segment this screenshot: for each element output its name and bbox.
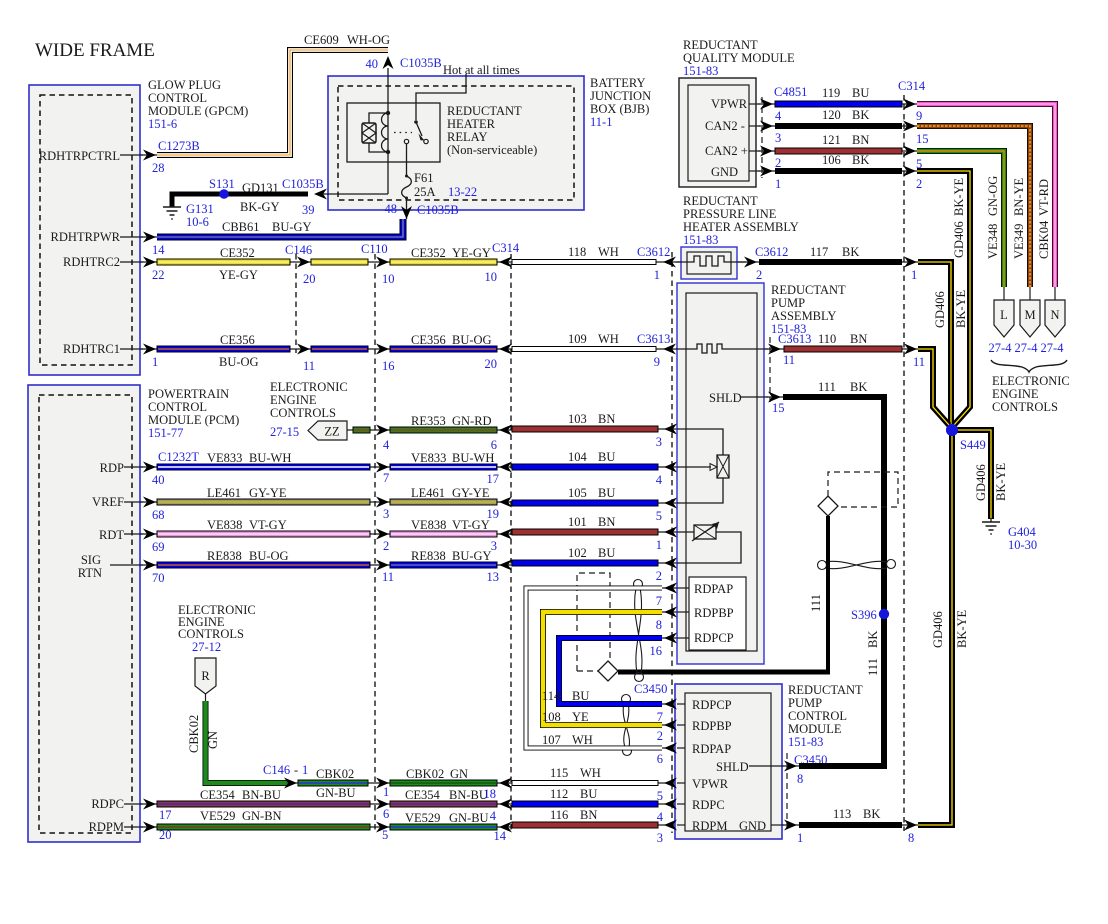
wire CBB61 BU-GY from fuse to GPCM pin 14 <box>157 219 403 237</box>
RPCM pin RDPAP <box>657 742 731 766</box>
svg-text:101: 101 <box>568 515 587 529</box>
label G131 10-6 <box>186 202 214 229</box>
pump internal solenoid valve <box>677 455 729 478</box>
svg-text:27-4: 27-4 <box>1041 341 1065 355</box>
svg-text:108: 108 <box>542 710 561 724</box>
svg-text:2: 2 <box>775 156 781 170</box>
labels BN-YE VE349 <box>1012 177 1026 259</box>
svg-text:C314: C314 <box>492 241 520 255</box>
svg-text:CONTROL: CONTROL <box>788 709 847 723</box>
RPCM pin RDPCP <box>657 698 732 724</box>
svg-text:C1035B: C1035B <box>282 177 324 191</box>
pump sensor box RDPAP RDPBP RDPCP <box>689 577 746 650</box>
labels GD406 BK-YE below S449 <box>931 609 969 648</box>
svg-text:111: 111 <box>866 658 880 676</box>
svg-text:9: 9 <box>654 355 660 369</box>
arrow C146 row CE356 <box>297 344 310 355</box>
svg-text:RDPCP: RDPCP <box>692 698 732 712</box>
svg-text:RDPM: RDPM <box>89 820 124 834</box>
svg-text:4: 4 <box>775 109 782 123</box>
relay dotted link <box>394 132 412 134</box>
wire 101 BN C314 to pump <box>512 515 658 535</box>
svg-text:RDHTRC1: RDHTRC1 <box>63 342 120 356</box>
svg-text:BU-OG: BU-OG <box>452 333 492 347</box>
svg-text:120: 120 <box>822 108 841 122</box>
connector C314 dashed column <box>492 241 520 833</box>
wire junction hairlines <box>124 104 919 827</box>
svg-text:BN-BU: BN-BU <box>242 788 281 802</box>
arrow C314 pin 9 <box>903 99 922 124</box>
svg-text:69: 69 <box>152 540 165 554</box>
pump internal motor symbol <box>677 522 741 563</box>
relay resistor branch wires <box>369 113 388 152</box>
svg-text:RTN: RTN <box>78 566 102 580</box>
PCM pin RDPM <box>89 820 172 842</box>
labels CBK02 GN vertical <box>187 715 220 753</box>
arrow C110 row RE838 <box>376 560 389 571</box>
svg-text:BU: BU <box>580 787 597 801</box>
wire CBK02 GN-BU C146 to C110 <box>298 767 368 800</box>
wire 117 BK C3612 to right column <box>759 245 902 265</box>
svg-text:C3612: C3612 <box>755 245 788 259</box>
svg-text:GND: GND <box>711 165 738 179</box>
PCM label <box>148 387 239 440</box>
svg-text:BU: BU <box>852 86 869 100</box>
svg-text:RDHTRC2: RDHTRC2 <box>63 255 120 269</box>
svg-text:13: 13 <box>487 570 500 584</box>
svg-text:10-6: 10-6 <box>186 215 209 229</box>
svg-text:WH-OG: WH-OG <box>347 33 390 47</box>
pump pin RDPBP <box>656 607 689 633</box>
svg-text:MODULE: MODULE <box>788 722 842 736</box>
svg-text:114: 114 <box>542 689 561 703</box>
arrow C3613 pin 11 right <box>757 332 811 367</box>
svg-text:CE356: CE356 <box>411 333 446 347</box>
svg-text:14: 14 <box>494 829 507 843</box>
twisted pair symbol module sensor wires <box>622 695 632 756</box>
svg-text:ENGINE: ENGINE <box>270 393 317 407</box>
wire GD406 BK-YE from GND to S449 <box>917 171 970 425</box>
svg-text:151-83: 151-83 <box>788 735 823 749</box>
svg-text:RE838: RE838 <box>207 549 242 563</box>
splice S131 <box>219 189 229 199</box>
svg-text:REDUCTANT: REDUCTANT <box>683 38 758 52</box>
svg-text:48: 48 <box>385 202 398 216</box>
svg-text:40: 40 <box>152 473 165 487</box>
PCM pin RDP <box>100 450 200 487</box>
svg-text:(Non-serviceable): (Non-serviceable) <box>447 143 537 157</box>
svg-text:G404: G404 <box>1008 525 1037 539</box>
svg-text:VT-GY: VT-GY <box>249 518 287 532</box>
wire 113 BK GND to right column <box>799 807 902 828</box>
svg-text:15: 15 <box>916 132 929 146</box>
svg-text:27-15: 27-15 <box>270 425 299 439</box>
wire VE348 GN-OG to flag L <box>917 151 1004 287</box>
label BATTERY JUNCTION BOX (BJB) <box>590 76 651 129</box>
wire LE461 GY-YE PCM to C110 <box>157 486 370 505</box>
svg-text:CONTROLS: CONTROLS <box>270 406 336 420</box>
wire VE529 GN-BN PCM to C110 <box>157 809 370 830</box>
svg-text:SHLD: SHLD <box>716 760 749 774</box>
svg-text:3: 3 <box>491 539 497 553</box>
wire VE838 VT-GY C110 to C314 <box>390 518 497 537</box>
arrow C146 row CBK02 <box>284 778 297 789</box>
splice S396 <box>851 608 889 622</box>
svg-text:RDP: RDP <box>100 461 124 475</box>
svg-text:118: 118 <box>568 245 586 259</box>
svg-text:S449: S449 <box>960 438 986 452</box>
svg-text:6: 6 <box>491 438 497 452</box>
svg-text:116: 116 <box>550 808 568 822</box>
svg-text:2: 2 <box>656 569 662 583</box>
wire GD406 BK-YE from 117 down to S449 <box>918 262 951 426</box>
svg-text:CAN2 +: CAN2 + <box>705 144 748 158</box>
svg-text:17: 17 <box>159 808 172 822</box>
connector C146 pin 1 label <box>263 763 308 777</box>
wire VE838 VT-GY PCM to C110 <box>157 518 370 537</box>
svg-text:C3613: C3613 <box>778 332 811 346</box>
pump pin RDPAP <box>656 583 689 609</box>
labels S131 GD131 C1035B BK-GY 39 <box>209 177 324 217</box>
wire 112 BU C314 to RDPC <box>512 787 658 807</box>
svg-text:113: 113 <box>833 807 851 821</box>
wire GD406 BK-YE S449 down to pin 8 <box>918 428 952 825</box>
svg-text:7: 7 <box>383 471 389 485</box>
svg-text:106: 106 <box>822 153 841 167</box>
svg-text:RDHTRPWR: RDHTRPWR <box>51 230 121 244</box>
svg-text:PUMP: PUMP <box>771 296 805 310</box>
wire 107 WH pump RDPAP to module RDPAP <box>526 588 662 748</box>
connector C3613 dashed stub <box>769 337 771 402</box>
connector C146 dashed column <box>285 243 312 353</box>
svg-text:105: 105 <box>568 486 587 500</box>
svg-text:S396: S396 <box>851 608 877 622</box>
brace under flags <box>991 360 1067 372</box>
arrow C110 row VE529 <box>376 822 389 833</box>
wire 109 WH C314 to C3613 <box>512 332 656 352</box>
svg-text:BU: BU <box>598 450 615 464</box>
shield diamond left <box>598 661 618 681</box>
arrow C110 row LE461 <box>376 497 389 508</box>
wire VE529 GN-BU C110 to C314 <box>390 811 497 830</box>
svg-text:C1232T: C1232T <box>158 450 199 464</box>
svg-text:BATTERY: BATTERY <box>590 76 646 90</box>
svg-text:SIG: SIG <box>81 553 101 567</box>
relay resistor box with hatch <box>362 123 376 143</box>
svg-text:1: 1 <box>302 763 308 777</box>
svg-text:RELAY: RELAY <box>447 130 488 144</box>
svg-text:BN: BN <box>598 412 615 426</box>
svg-text:BK: BK <box>866 631 880 648</box>
svg-text:11-1: 11-1 <box>590 115 612 129</box>
svg-text:C4851: C4851 <box>774 85 807 99</box>
wire 121 BN <box>775 133 902 154</box>
svg-text:VE529: VE529 <box>200 809 235 823</box>
svg-text:BK: BK <box>863 807 880 821</box>
label ELECTRONIC ENGINE CONTROLS right <box>992 374 1070 414</box>
svg-text:RE353: RE353 <box>411 414 446 428</box>
wire 118 WH C314 to C3612 <box>512 245 656 265</box>
twisted pair symbol pump sensor wires <box>634 580 644 682</box>
svg-text:CBK02: CBK02 <box>316 767 354 781</box>
arrow C314 row CBK02 <box>499 778 512 789</box>
svg-text:HEATER: HEATER <box>447 117 496 131</box>
svg-text:C3613: C3613 <box>637 332 670 346</box>
svg-text:VREF: VREF <box>92 495 124 509</box>
svg-text:GY-YE: GY-YE <box>249 486 287 500</box>
wire 105 BU C314 to pump <box>512 486 658 506</box>
arrow C314 row LE461 <box>499 497 512 508</box>
svg-text:11: 11 <box>303 359 315 373</box>
shield diamond right <box>818 496 838 516</box>
RPCM GND output arrow <box>771 820 803 846</box>
svg-text:151-83: 151-83 <box>683 233 718 247</box>
svg-text:VE838: VE838 <box>411 518 446 532</box>
svg-text:3: 3 <box>657 831 663 845</box>
wire relay coil vertical from C1035B 40 <box>387 68 389 194</box>
arrow C314 pin 15 <box>903 121 929 147</box>
GPCM pin RDHTRC1 <box>63 342 158 369</box>
wire CE354 BN-BU C110 to C314 <box>390 788 497 807</box>
label relay <box>447 104 537 157</box>
svg-text:4: 4 <box>383 438 390 452</box>
svg-text:17: 17 <box>487 472 500 486</box>
svg-text:22: 22 <box>152 268 165 282</box>
svg-text:VE349: VE349 <box>1012 224 1026 259</box>
labels GN-OG VE348 <box>986 176 1000 259</box>
svg-text:YE-GY: YE-GY <box>452 246 491 260</box>
arrow C110 row CE354 <box>376 799 389 810</box>
arrow C3612 pin 2 <box>744 245 788 282</box>
svg-text:BK: BK <box>852 108 869 122</box>
svg-text:VE838: VE838 <box>207 518 242 532</box>
shield dashed path right <box>828 472 898 507</box>
svg-text:117: 117 <box>810 245 828 259</box>
svg-text:7: 7 <box>657 710 663 724</box>
GPCM label <box>148 78 248 131</box>
svg-text:GND: GND <box>739 819 766 833</box>
svg-text:CBK04: CBK04 <box>1037 220 1051 259</box>
flag L <box>989 287 1014 355</box>
arrow C314 pin 5 <box>903 146 922 172</box>
svg-text:BU-WH: BU-WH <box>249 451 291 465</box>
PCM pin RDPC <box>91 797 171 822</box>
svg-text:MODULE (PCM): MODULE (PCM) <box>148 413 239 427</box>
svg-text:BK-YE: BK-YE <box>954 289 968 328</box>
svg-text:BK-YE: BK-YE <box>952 177 966 216</box>
RQM pin GND <box>711 165 781 191</box>
arrow pump pin 3 <box>656 424 677 450</box>
svg-text:CBK02: CBK02 <box>406 767 444 781</box>
svg-text:39: 39 <box>302 203 315 217</box>
svg-text:CE352: CE352 <box>411 246 446 260</box>
arrow C3612 pin 1 <box>637 245 676 282</box>
svg-text:BU: BU <box>598 546 615 560</box>
svg-text:GLOW PLUG: GLOW PLUG <box>148 78 221 92</box>
svg-text:112: 112 <box>550 787 568 801</box>
wire 119 BU <box>775 79 926 107</box>
wire fuse to C1035B 48 <box>406 198 408 219</box>
arrow C110 row RE353 <box>376 425 389 436</box>
labels BK-YE GD406 wire2 <box>952 177 966 258</box>
svg-text:-: - <box>294 763 298 777</box>
svg-text:RDPC: RDPC <box>692 798 725 812</box>
svg-text:GN-RD: GN-RD <box>452 414 492 428</box>
svg-text:GN-BN: GN-BN <box>242 809 282 823</box>
svg-text:2: 2 <box>756 268 762 282</box>
svg-text:BK: BK <box>852 153 869 167</box>
svg-text:PUMP: PUMP <box>788 696 822 710</box>
wire 103 BN C314 to pump <box>512 412 658 432</box>
wire SHLD thick black to S396 line <box>799 760 884 766</box>
label REDUCTANT PUMP CONTROL MODULE <box>788 683 863 749</box>
svg-text:VPWR: VPWR <box>711 97 748 111</box>
svg-text:VT-GY: VT-GY <box>452 518 490 532</box>
svg-text:CONTROLS: CONTROLS <box>178 627 244 641</box>
wire 106 BK <box>775 153 902 174</box>
svg-text:8: 8 <box>908 831 914 845</box>
RQM pin VPWR <box>711 85 807 123</box>
twisted pair symbol horizontal over 111 wires <box>818 560 896 570</box>
svg-text:121: 121 <box>822 133 841 147</box>
svg-text:GN: GN <box>206 731 220 749</box>
svg-text:GD406: GD406 <box>974 464 988 501</box>
wire CE352 YE-GY C110 to C314 <box>390 246 497 265</box>
svg-text:GD131: GD131 <box>242 181 279 195</box>
svg-text:BK-GY: BK-GY <box>240 200 280 214</box>
arrow right column pin 1 row 117 <box>904 257 917 283</box>
svg-text:8: 8 <box>656 618 662 632</box>
svg-text:2: 2 <box>657 729 663 743</box>
labels BK 111 below S396 <box>866 631 880 676</box>
wire CE352 YE-GY GPCM to C146 <box>157 246 290 282</box>
svg-text:11: 11 <box>783 353 795 367</box>
svg-text:C314: C314 <box>898 79 926 93</box>
wire 111 horizontal diamond2 to corner <box>618 670 830 675</box>
arrow pump pin 5 <box>656 498 677 524</box>
connector column right dashed <box>903 95 905 831</box>
svg-text:REDUCTANT: REDUCTANT <box>447 104 522 118</box>
arrow C314 row VE529 <box>499 822 512 833</box>
svg-text:RDPBP: RDPBP <box>692 719 732 733</box>
svg-text:CONTROL: CONTROL <box>148 400 207 414</box>
svg-text:BOX (BJB): BOX (BJB) <box>590 102 649 116</box>
svg-text:BN-YE: BN-YE <box>1012 177 1026 216</box>
svg-text:G131: G131 <box>186 202 214 216</box>
svg-text:SHLD: SHLD <box>709 391 742 405</box>
flag R electronic engine controls <box>195 658 216 701</box>
svg-text:3: 3 <box>775 131 781 145</box>
wire RE838 BU-OG PCM to C110 <box>157 549 370 568</box>
svg-text:10: 10 <box>485 270 498 284</box>
svg-text:REDUCTANT: REDUCTANT <box>771 283 846 297</box>
svg-text:R: R <box>201 669 210 683</box>
flag M <box>1015 287 1040 355</box>
svg-text:HEATER ASSEMBLY: HEATER ASSEMBLY <box>683 220 799 234</box>
svg-text:GN-OG: GN-OG <box>986 176 1000 216</box>
svg-text:6: 6 <box>657 752 663 766</box>
svg-text:RDT: RDT <box>99 528 124 542</box>
PCM pin SIG RTN <box>78 553 165 585</box>
svg-text:BN: BN <box>598 515 615 529</box>
arrow C146 row CE352 <box>297 257 310 268</box>
svg-text:CE354: CE354 <box>405 788 440 802</box>
pump SHLD pin <box>709 391 785 415</box>
label REDUCTANT QUALITY MODULE <box>683 38 795 78</box>
svg-text:70: 70 <box>152 571 165 585</box>
svg-text:Hot at all times: Hot at all times <box>443 63 520 77</box>
wire CE356 C146 to C110 <box>311 346 368 352</box>
svg-text:110: 110 <box>818 332 836 346</box>
svg-text:1: 1 <box>656 538 662 552</box>
svg-text:27-4: 27-4 <box>989 341 1013 355</box>
svg-text:VPWR: VPWR <box>692 777 729 791</box>
svg-text:RDHTRPCTRL: RDHTRPCTRL <box>39 149 120 163</box>
svg-text:LE461: LE461 <box>411 486 445 500</box>
svg-text:GD406: GD406 <box>931 611 945 648</box>
label ELECTRONIC ENGINE CONTROLS lower <box>178 603 256 654</box>
wire 115 WH C314 to VPWR <box>512 766 658 786</box>
RQM pin CAN2- <box>705 119 781 145</box>
svg-text:1: 1 <box>152 355 158 369</box>
relay coil junction dots <box>386 111 390 115</box>
svg-text:BN-BU: BN-BU <box>449 788 488 802</box>
labels GD406 BK-YE G404 branch <box>974 462 1008 501</box>
wire CBK02 GN flag R to C146 <box>206 701 288 783</box>
svg-text:C146: C146 <box>263 763 290 777</box>
arrow right column pin 11 row 110 <box>904 344 925 370</box>
svg-text:BN: BN <box>580 808 597 822</box>
GPCM module box <box>29 85 140 375</box>
label CBB61 BU-GY <box>222 220 312 234</box>
svg-text:C110: C110 <box>361 242 388 256</box>
svg-text:RDPBP: RDPBP <box>694 606 734 620</box>
svg-text:RDPAP: RDPAP <box>694 582 733 596</box>
svg-text:MODULE (GPCM): MODULE (GPCM) <box>148 104 248 118</box>
relay switch contact <box>414 120 418 124</box>
arrow right column pin 8 row 113 <box>904 820 917 846</box>
RPCM pin RDPBP <box>657 719 732 743</box>
wire 104 BU C314 to pump <box>512 450 658 470</box>
pump internal wire 103 to solenoid <box>677 429 723 455</box>
svg-text:N: N <box>1050 308 1059 322</box>
svg-text:20: 20 <box>485 357 498 371</box>
svg-text:GY-YE: GY-YE <box>452 486 490 500</box>
svg-text:RDPCP: RDPCP <box>694 631 734 645</box>
svg-text:YE-GY: YE-GY <box>219 268 258 282</box>
svg-text:BN: BN <box>850 332 867 346</box>
labels GD406 BK-YE wire1 <box>933 289 968 328</box>
wire 111 BK SHLD to S396 vertical <box>783 380 884 763</box>
svg-text:CONTROL: CONTROL <box>148 91 207 105</box>
svg-text:CONTROLS: CONTROLS <box>992 400 1058 414</box>
svg-text:VE833: VE833 <box>411 451 446 465</box>
heater assembly box <box>681 247 737 279</box>
arrow C314 row CE354 <box>499 799 512 810</box>
svg-text:15: 15 <box>772 401 785 415</box>
flag N <box>1041 287 1065 355</box>
svg-text:CE354: CE354 <box>200 788 235 802</box>
svg-text:VT-RD: VT-RD <box>1037 179 1051 216</box>
svg-text:151-83: 151-83 <box>683 64 718 78</box>
reductant pump control module box <box>675 684 782 839</box>
svg-text:WH: WH <box>572 733 593 747</box>
GPCM pin RDHTRPWR <box>51 230 166 257</box>
svg-text:40: 40 <box>366 57 379 71</box>
label F61 25A 13-22 <box>414 171 477 199</box>
wire VE833 BU-WH PCM to C110 <box>157 451 370 470</box>
svg-text:13-22: 13-22 <box>448 185 477 199</box>
